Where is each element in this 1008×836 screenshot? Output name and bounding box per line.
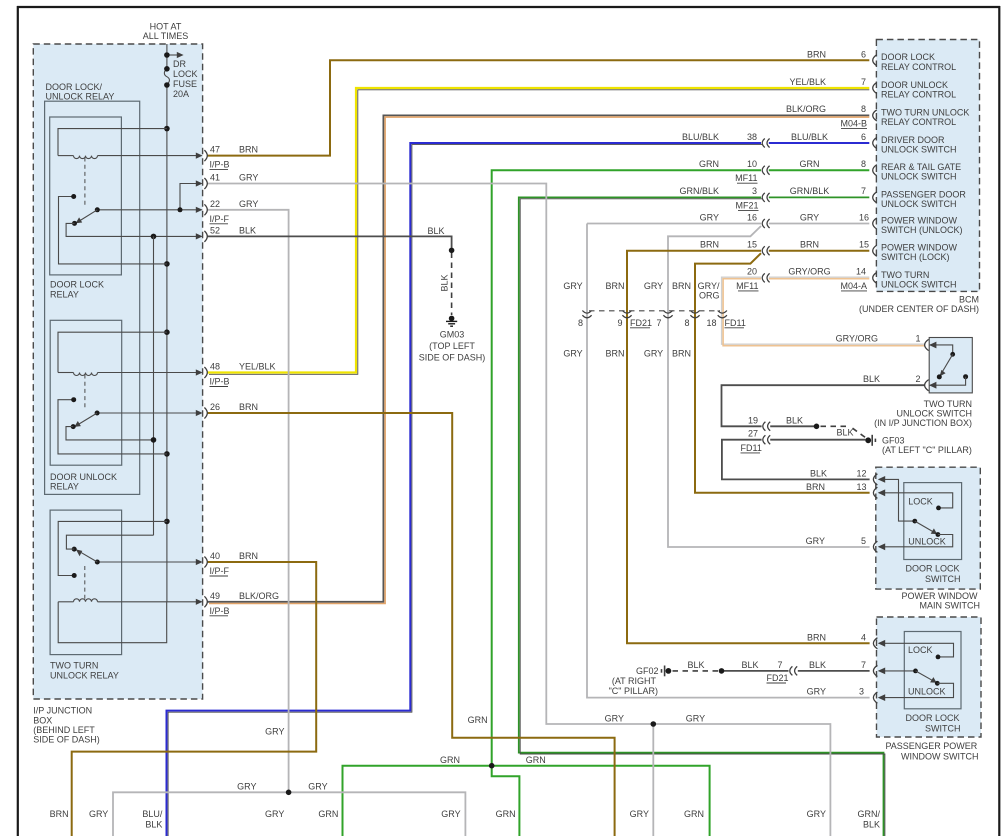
power window main switch box (dashed) [876, 467, 981, 589]
connector break FD11-8 BRN column [690, 311, 699, 318]
main switch pin5 labels [806, 536, 866, 546]
label HOT AT ALL TIMES [143, 22, 189, 42]
I/P connector arrow pin22 [196, 204, 207, 215]
relay K2 switch arm [71, 413, 97, 429]
label DR LOCK FUSE 20A [173, 59, 198, 99]
svg-text:DOOR LOCK: DOOR LOCK [905, 713, 959, 723]
svg-text:DOOR LOCK: DOOR LOCK [881, 52, 935, 62]
svg-text:(UNDER CENTER OF DASH): (UNDER CENTER OF DASH) [859, 304, 979, 314]
svg-text:POWER WINDOW: POWER WINDOW [902, 591, 978, 601]
svg-text:LOCK: LOCK [908, 645, 933, 655]
switch connector arc+arrow passenger pin3 [873, 692, 885, 703]
relay K3 coil box (coil on top) [58, 599, 201, 643]
main switch pin12 labels [810, 468, 867, 478]
FD column labels below breaks [563, 349, 691, 359]
svg-text:DOOR LOCK/: DOOR LOCK/ [46, 82, 103, 92]
relay K1 door lock relay coil box [58, 129, 202, 159]
door lock switch box (passenger) [904, 632, 961, 709]
inline connector row 3/7 GRN/BLK MF21 [762, 193, 769, 202]
svg-text:GM03: GM03 [440, 330, 465, 340]
svg-text:GRY: GRY [644, 349, 663, 359]
svg-text:GRY/ORG: GRY/ORG [788, 267, 830, 277]
label TWO TURN UNLOCK RELAY [50, 661, 119, 681]
svg-text:(AT LEFT "C" PILLAR): (AT LEFT "C" PILLAR) [882, 445, 972, 455]
svg-text:TWO TURN: TWO TURN [924, 399, 972, 409]
switch connector arc+arrow main pin5 [873, 541, 885, 552]
svg-text:BRN: BRN [605, 281, 624, 291]
svg-text:RELAY: RELAY [50, 289, 79, 299]
svg-text:SWITCH: SWITCH [925, 724, 961, 734]
label TWO TURN UNLOCK SWITCH (IN I/P JUNCTION BOX) [874, 399, 972, 428]
svg-text:GRY: GRY [686, 714, 705, 724]
svg-text:DOOR LOCK: DOOR LOCK [50, 280, 104, 290]
inline connector row 38/6 BLU/BLK [762, 139, 769, 148]
svg-text:BLK: BLK [836, 428, 853, 438]
pin 40 labels [210, 551, 259, 576]
svg-text:(IN I/P JUNCTION BOX): (IN I/P JUNCTION BOX) [874, 418, 972, 428]
svg-text:GRY: GRY [237, 782, 256, 792]
svg-text:UNLOCK SWITCH: UNLOCK SWITCH [881, 172, 957, 182]
door unlock relay box [50, 320, 122, 465]
svg-text:HOT AT: HOT AT [150, 22, 182, 32]
wire GRY row16 left branch B diagonal to splice bus [668, 226, 870, 547]
svg-text:BLK: BLK [741, 660, 758, 670]
svg-text:DOOR LOCK: DOOR LOCK [905, 563, 959, 573]
svg-text:WINDOW SWITCH: WINDOW SWITCH [901, 751, 978, 761]
junction dot GRY bottom bus [286, 790, 292, 796]
svg-text:GRN: GRN [468, 715, 488, 725]
svg-text:FD11: FD11 [725, 318, 746, 328]
door lock/unlock relay assembly box [45, 101, 140, 494]
switch connector arc+arrow passenger pin4 [873, 638, 885, 649]
label BLK at ground drop [427, 226, 444, 236]
wire BRN pin47 to BCM pin6 [208, 60, 870, 155]
relay K3 contact to shared vertical [66, 535, 153, 549]
svg-text:2: 2 [915, 374, 920, 384]
BCM row7 YEL/BLK labels [789, 77, 866, 87]
svg-text:FD11: FD11 [741, 443, 762, 453]
svg-text:SWITCH: SWITCH [925, 574, 961, 584]
passenger switch pin7 common wiring [879, 669, 918, 674]
relay K2 common to pin26 [95, 411, 202, 416]
wire BRN row15 left branch B to main switch pin13 [695, 253, 870, 493]
fuse DR LOCK FUSE 20A vertical feed [164, 44, 169, 602]
svg-text:49: 49 [210, 591, 220, 601]
svg-text:BRN: BRN [50, 809, 69, 819]
ground splice GF02 symbol [662, 666, 672, 677]
splice dot GF02 branch [719, 668, 725, 674]
main switch UNLOCK contact wiring pin5 [879, 535, 953, 547]
svg-text:BLK: BLK [863, 820, 880, 830]
wire GRN/BLK passenger door unlock to BCM pin7 [519, 197, 885, 836]
I/P connector arrow pin49 [196, 596, 207, 607]
wire GRY bottom bus [113, 792, 465, 836]
svg-text:GRY: GRY [308, 782, 327, 792]
relay K3 two turn unlock relay B+ contact wiring [58, 521, 167, 578]
svg-text:8: 8 [861, 159, 866, 169]
passenger switch arm [916, 671, 940, 686]
svg-text:GRY: GRY [807, 809, 826, 819]
svg-text:5: 5 [861, 536, 866, 546]
svg-text:14: 14 [856, 267, 866, 277]
svg-text:GRN: GRN [496, 809, 516, 819]
main switch LOCK contact wiring pin13 [879, 493, 953, 511]
BCM row 20/14 GRY/ORG labels + MF11 + M04-A [736, 267, 867, 291]
svg-text:PASSENGER DOOR: PASSENGER DOOR [881, 189, 966, 199]
label BCM (UNDER CENTER OF DASH) [859, 294, 979, 314]
svg-text:BLK: BLK [687, 660, 704, 670]
svg-text:48: 48 [210, 362, 220, 372]
relay K2 door unlock relay coil box [58, 332, 202, 375]
svg-text:PASSENGER POWER: PASSENGER POWER [885, 741, 977, 751]
switch connector arc+arrow two turn pin2 [925, 380, 937, 391]
frame border right [998, 6, 1000, 836]
svg-text:6: 6 [861, 132, 866, 142]
main switch LOCK/UNLOCK labels [908, 496, 946, 546]
main switch pin13 labels [806, 482, 867, 492]
svg-text:GRN: GRN [800, 159, 820, 169]
relay K3 switch arm (points up) [72, 547, 98, 562]
svg-text:UNLOCK SWITCH: UNLOCK SWITCH [881, 199, 957, 209]
svg-text:ORG: ORG [699, 291, 720, 301]
svg-text:I/P JUNCTION: I/P JUNCTION [33, 706, 92, 716]
row19 labels [748, 415, 854, 437]
inline connector row 16/16 GRY [762, 219, 769, 228]
wire BLK GF02 dashed splice [673, 670, 719, 672]
svg-text:10: 10 [747, 159, 757, 169]
wire BLK/ORG pin49 to BCM pin8 [208, 115, 870, 603]
svg-text:DRIVER DOOR: DRIVER DOOR [881, 135, 945, 145]
svg-text:UNLOCK SWITCH: UNLOCK SWITCH [896, 408, 972, 418]
svg-text:(AT RIGHT: (AT RIGHT [612, 676, 657, 686]
label I/P JUNCTION BOX [33, 706, 100, 745]
svg-text:M04-A: M04-A [840, 281, 867, 291]
svg-text:BRN: BRN [239, 402, 258, 412]
svg-text:8: 8 [684, 318, 689, 328]
svg-text:LOCK: LOCK [908, 496, 933, 506]
I/P connector arrow pin41 [196, 178, 207, 189]
svg-text:GRY: GRY [89, 809, 108, 819]
svg-text:GRY: GRY [644, 281, 663, 291]
pin 47 labels [210, 145, 259, 170]
svg-text:SIDE OF DASH): SIDE OF DASH) [419, 353, 486, 363]
svg-text:12: 12 [856, 468, 866, 478]
svg-text:DOOR UNLOCK: DOOR UNLOCK [50, 472, 117, 482]
svg-text:FD21: FD21 [767, 673, 789, 683]
svg-text:BLK: BLK [810, 468, 827, 478]
BCM connector arcs pins 6,7,8,6,8,7,16,15,14 [873, 55, 877, 284]
svg-text:4: 4 [861, 632, 866, 642]
I/P junction box (dashed, light blue) [33, 44, 202, 699]
svg-text:16: 16 [859, 212, 869, 222]
door lock switch box (main) [904, 483, 962, 560]
FD column labels above breaks [563, 281, 720, 301]
BCM row 38/6 BLU/BLK labels [682, 132, 866, 142]
wire BLK relay outputs shared vertical [153, 236, 155, 535]
svg-text:UNLOCK SWITCH: UNLOCK SWITCH [881, 279, 957, 289]
svg-text:GRY: GRY [800, 212, 819, 222]
ground splice GF03 symbol [865, 435, 875, 446]
relay K1 B+ contact wiring [59, 194, 167, 264]
main switch arm [915, 521, 941, 537]
svg-text:3: 3 [859, 687, 864, 697]
label BLK rotated on ground drop [440, 274, 450, 291]
svg-text:MF11: MF11 [735, 173, 757, 183]
pin 52 labels [210, 225, 256, 235]
svg-text:BCM: BCM [959, 294, 979, 304]
relay K2 output to shared vertical [66, 427, 156, 443]
wire BRN pin40 down left to bottom [72, 562, 317, 836]
two turn switch pin1 labels [836, 334, 921, 344]
inline connector row 15/15 BRN [762, 246, 769, 255]
labels GRY on bottom bus [237, 782, 327, 792]
svg-text:16: 16 [747, 212, 757, 222]
passenger pin4 labels [807, 632, 866, 642]
svg-text:GRY: GRY [630, 809, 649, 819]
svg-text:7: 7 [656, 318, 661, 328]
label DOOR LOCK SWITCH (main) [905, 563, 960, 584]
svg-text:GRN: GRN [684, 809, 704, 819]
BCM row6 BRN labels [807, 49, 866, 59]
passenger switch LOCK/UNLOCK labels [908, 645, 946, 696]
inline connector row 19 BLK [763, 422, 770, 431]
wire GRN rear/tailgate unlock to BCM pin8 [492, 170, 870, 766]
svg-text:GRY: GRY [563, 349, 582, 359]
FD break pin numbers [578, 318, 746, 328]
svg-text:6: 6 [861, 49, 866, 59]
svg-text:BLK/ORG: BLK/ORG [239, 591, 279, 601]
wire BLU/BLK BCM pin6 branch (connector 38) [167, 143, 870, 836]
labels GRN on green bus [440, 755, 546, 765]
svg-text:20A: 20A [173, 89, 189, 99]
label PASSENGER POWER WINDOW SWITCH [885, 741, 978, 762]
wire BRN row15 left branch A column FD21-9 to passenger pin4 [627, 251, 870, 644]
svg-text:I/P-B: I/P-B [210, 606, 230, 616]
svg-text:I/P-F: I/P-F [210, 566, 230, 576]
svg-text:7: 7 [861, 186, 866, 196]
row27 labels + FD11 [741, 429, 762, 453]
svg-text:38: 38 [747, 132, 757, 142]
relay K2 B+ contact wiring [58, 397, 167, 454]
label GRN on rear unlock drop [468, 715, 488, 725]
label DOOR UNLOCK RELAY [50, 472, 117, 492]
svg-text:DR: DR [173, 59, 186, 69]
wire GRY/ORG two turn unlock switch row to BCM pin14 [769, 277, 870, 279]
svg-text:GRY: GRY [806, 536, 825, 546]
connector break FD21-8 GRY column [582, 311, 591, 318]
switch connector arc+arrow two turn pin1 [925, 339, 937, 350]
svg-text:BLK: BLK [863, 374, 880, 384]
inline connector row 27 BLK FD11 [763, 435, 770, 444]
svg-text:BLU/: BLU/ [142, 809, 163, 819]
relay K2 coil-arm dashed link [84, 375, 86, 410]
svg-text:47: 47 [210, 145, 220, 155]
relay K1 coil-arm dashed link [84, 158, 86, 207]
two turn unlock switch internals [930, 345, 968, 385]
wire BLK two turn switch pin2 to connector row19 [722, 385, 925, 426]
passenger pin3 labels [807, 687, 864, 697]
BCM row8 BLK/ORG labels + M04-B [786, 104, 867, 128]
BCM row 16/16 GRY labels [700, 212, 869, 222]
svg-text:TWO TURN UNLOCK: TWO TURN UNLOCK [881, 107, 969, 117]
svg-text:UNLOCK RELAY: UNLOCK RELAY [50, 670, 119, 680]
svg-text:"C" PILLAR): "C" PILLAR) [609, 686, 658, 696]
passenger power window switch box (dashed) [877, 617, 982, 737]
junction dot GRN bus [489, 763, 495, 769]
connector break FD11-18 GRY/ORG column [718, 311, 727, 318]
I/P connector arrow pin52 [196, 231, 207, 242]
svg-text:I/P-B: I/P-B [210, 160, 230, 170]
svg-text:GRN: GRN [440, 755, 460, 765]
BCM internal row texts [881, 52, 956, 72]
two turn unlock relay box [50, 510, 122, 654]
svg-text:7: 7 [861, 660, 866, 670]
svg-text:BLK: BLK [427, 226, 444, 236]
svg-text:1: 1 [915, 334, 920, 344]
frame border left [17, 6, 19, 836]
svg-text:GRN: GRN [526, 755, 546, 765]
svg-text:GRY/ORG: GRY/ORG [836, 334, 878, 344]
wire GRN jog to lower branch [492, 766, 520, 836]
svg-text:GRN: GRN [699, 159, 719, 169]
main switch pin12 common wiring [879, 479, 917, 523]
svg-text:GF02: GF02 [636, 666, 659, 676]
svg-text:BLK: BLK [145, 820, 162, 830]
svg-text:22: 22 [210, 199, 220, 209]
wire BLK row19 solid to splice [770, 425, 814, 427]
svg-text:BLK: BLK [440, 274, 450, 291]
switch connector arc+arrow passenger pin7 [873, 665, 885, 676]
svg-text:MAIN SWITCH: MAIN SWITCH [920, 601, 981, 611]
svg-text:M04-B: M04-B [840, 118, 867, 128]
relay K3 coil-arm dashed link [84, 566, 86, 600]
wire GRY/ORG left to two turn unlock switch pin1 [722, 277, 925, 346]
svg-text:GRN: GRN [318, 809, 338, 819]
passenger pin7 row labels [687, 660, 866, 683]
svg-text:27: 27 [748, 429, 758, 439]
label GM03 ground [419, 330, 486, 363]
svg-text:(TOP LEFT: (TOP LEFT [429, 341, 475, 351]
svg-text:BRN: BRN [806, 482, 825, 492]
svg-text:20: 20 [747, 267, 757, 277]
frame border top [17, 6, 1000, 8]
svg-text:YEL/BLK: YEL/BLK [239, 362, 276, 372]
BCM box (dashed, light blue) [876, 40, 979, 292]
svg-text:GRY: GRY [239, 199, 258, 209]
svg-text:7: 7 [861, 77, 866, 87]
label POWER WINDOW MAIN SWITCH [902, 591, 981, 611]
svg-text:GRN/BLK: GRN/BLK [679, 186, 719, 196]
wire GRY pin22 down to bottom bus [208, 210, 289, 793]
inline connector row 20/14 GRY/ORG MF11 [762, 273, 769, 282]
pin 48 labels [210, 362, 276, 387]
svg-text:MF21: MF21 [735, 200, 758, 210]
pin 22 labels [210, 199, 259, 224]
svg-text:LOCK: LOCK [173, 69, 198, 79]
inline connector row 7/7 BLK FD21 passenger [790, 666, 797, 675]
svg-text:RELAY CONTROL: RELAY CONTROL [881, 117, 956, 127]
svg-text:GF03: GF03 [882, 435, 905, 445]
svg-text:(BEHIND LEFT: (BEHIND LEFT [33, 725, 95, 735]
wire BRN power window switch lock row15 right [769, 250, 870, 252]
wire GRY pin41 down to lower bus [208, 184, 831, 836]
I/P connector arrow pin40 [196, 557, 207, 568]
svg-text:BRN: BRN [239, 145, 258, 155]
connector break FD21-7 GRY column [663, 311, 672, 318]
svg-text:SWITCH (UNLOCK): SWITCH (UNLOCK) [881, 225, 963, 235]
svg-text:41: 41 [210, 173, 220, 183]
switch connector arc+arrow main pin13 [873, 487, 885, 498]
wire BLK row19 dashed to GF03 [821, 426, 866, 437]
svg-text:GRY: GRY [441, 809, 460, 819]
svg-text:MF11: MF11 [736, 281, 758, 291]
svg-text:BRN: BRN [800, 240, 819, 250]
junction dot GRY mid bus [651, 721, 657, 727]
connector break FD21-9 BRN column [622, 311, 631, 318]
label DOOR LOCK SWITCH (passenger) [905, 713, 960, 734]
svg-text:TWO TURN: TWO TURN [881, 270, 929, 280]
svg-text:REAR & TAIL GATE: REAR & TAIL GATE [881, 162, 961, 172]
label GF02 (AT RIGHT "C" PILLAR) [609, 666, 659, 696]
svg-text:15: 15 [747, 240, 757, 250]
relay K1 switch arm [72, 210, 97, 226]
svg-text:BRN: BRN [605, 349, 624, 359]
svg-text:BRN: BRN [807, 49, 826, 59]
bottom wire labels [50, 809, 881, 830]
svg-text:BLU/BLK: BLU/BLK [682, 132, 719, 142]
I/P connector arrow pin48 [196, 367, 207, 378]
svg-text:BOX: BOX [33, 715, 52, 725]
svg-text:26: 26 [210, 402, 220, 412]
svg-text:RELAY CONTROL: RELAY CONTROL [881, 90, 956, 100]
svg-text:BLK/ORG: BLK/ORG [786, 104, 826, 114]
label GRY on pin22 drop [265, 727, 284, 737]
wire GRY column FD21-8 down to passenger pin3 [587, 224, 870, 698]
wire BLK row27 to GF03 [722, 440, 870, 480]
svg-text:GRY: GRY [563, 281, 582, 291]
two turn unlock switch box [929, 338, 972, 393]
svg-text:BRN: BRN [239, 551, 258, 561]
svg-text:GRY: GRY [265, 809, 284, 819]
svg-text:RELAY: RELAY [50, 482, 79, 492]
label GF03 (AT LEFT "C" PILLAR) [882, 435, 972, 455]
svg-text:3: 3 [752, 186, 757, 196]
svg-text:BLK: BLK [239, 225, 256, 235]
svg-text:POWER WINDOW: POWER WINDOW [881, 215, 957, 225]
svg-text:8: 8 [578, 318, 583, 328]
two turn switch pin2 labels [863, 374, 921, 384]
svg-text:GRY: GRY [239, 173, 258, 183]
svg-text:BRN: BRN [672, 281, 691, 291]
svg-text:UNLOCK RELAY: UNLOCK RELAY [46, 92, 115, 102]
svg-text:UNLOCK: UNLOCK [908, 686, 946, 696]
BCM row 10/8 GRN labels + MF11 [699, 159, 866, 183]
svg-text:FD21: FD21 [630, 318, 652, 328]
svg-text:BLK: BLK [809, 660, 826, 670]
ground GM03 symbol [446, 316, 457, 327]
BCM row 15/15 BRN labels [700, 240, 869, 250]
svg-text:BRN: BRN [807, 632, 826, 642]
svg-text:19: 19 [748, 415, 758, 425]
relay K1 output to pin52 [66, 223, 201, 239]
svg-text:RELAY CONTROL: RELAY CONTROL [881, 62, 956, 72]
wire BRN pin26 down right to bottom [208, 413, 615, 836]
svg-text:GRY: GRY [265, 727, 284, 737]
door lock relay box [50, 117, 122, 275]
svg-text:FUSE: FUSE [173, 79, 197, 89]
svg-text:18: 18 [706, 318, 716, 328]
svg-text:13: 13 [856, 482, 866, 492]
